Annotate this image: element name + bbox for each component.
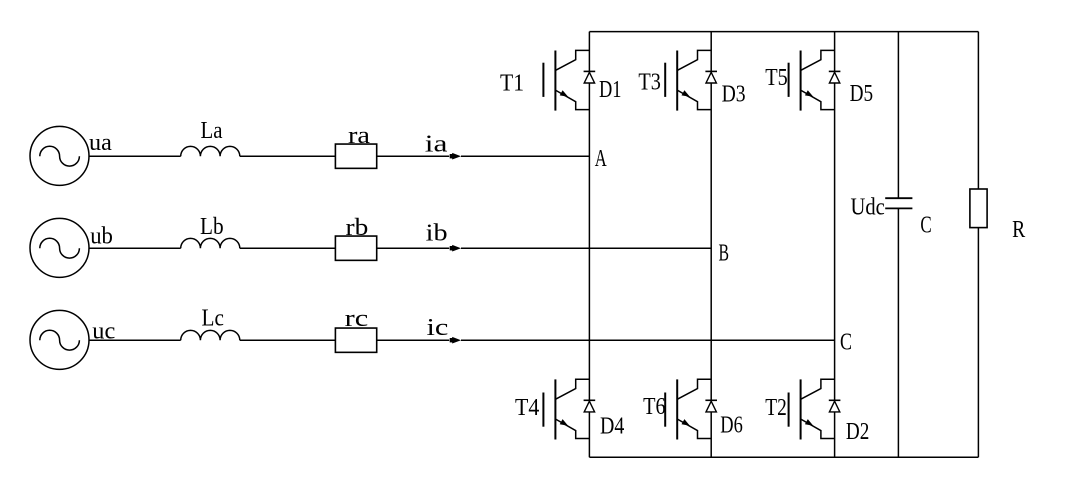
wire bridge leg 2 xyxy=(710,32,712,458)
wire xyxy=(377,339,450,341)
resistor rb xyxy=(335,236,376,260)
wire xyxy=(377,155,450,157)
diode D3 xyxy=(705,71,717,83)
transistor T3 (IGBT) xyxy=(665,50,711,110)
svg-text:Lb: Lb xyxy=(200,213,224,240)
wire bridge leg 1 xyxy=(588,32,590,458)
svg-text:ra: ra xyxy=(348,122,370,149)
svg-text:ic: ic xyxy=(427,314,449,341)
wire capacitor branch bottom xyxy=(897,208,899,457)
transistor T5 (IGBT) xyxy=(789,50,835,110)
svg-text:R: R xyxy=(1012,216,1026,243)
transistor T1 (IGBT) xyxy=(543,50,589,110)
current arrow ib xyxy=(452,245,461,252)
wire load branch top xyxy=(977,32,979,189)
current arrow ia xyxy=(452,153,461,160)
capacitor C xyxy=(885,197,912,199)
wire bridge leg 3 xyxy=(834,32,836,458)
AC source ua xyxy=(30,126,89,185)
svg-text:T6: T6 xyxy=(643,393,666,420)
wire xyxy=(377,247,450,249)
svg-text:B: B xyxy=(719,239,730,266)
resistor rc xyxy=(335,328,376,352)
svg-text:T1: T1 xyxy=(500,70,524,97)
diode D4 xyxy=(584,400,596,412)
svg-text:T4: T4 xyxy=(515,394,539,421)
svg-text:D6: D6 xyxy=(720,412,743,439)
wire xyxy=(240,247,336,249)
inductor Lb xyxy=(181,238,240,248)
svg-text:A: A xyxy=(595,145,607,172)
svg-text:Udc: Udc xyxy=(851,194,885,221)
wire xyxy=(461,247,711,249)
wire top DC rail xyxy=(589,31,978,33)
svg-text:D5: D5 xyxy=(850,80,874,107)
current arrow ic xyxy=(452,337,461,344)
svg-text:T5: T5 xyxy=(765,64,788,91)
diode D2 xyxy=(829,400,841,412)
AC source ub xyxy=(30,218,89,277)
svg-text:rb: rb xyxy=(346,214,369,241)
svg-text:ua: ua xyxy=(89,129,112,156)
AC source uc xyxy=(30,310,89,369)
svg-text:D2: D2 xyxy=(846,418,869,445)
wire xyxy=(89,155,181,157)
svg-text:C: C xyxy=(920,212,931,239)
inductor La xyxy=(181,146,240,156)
diode D5 xyxy=(829,71,841,83)
wire capacitor branch top xyxy=(897,32,899,199)
diode D1 xyxy=(584,71,596,83)
transistor T6 (IGBT) xyxy=(665,379,711,439)
inductor Lc xyxy=(181,330,240,340)
diode D6 xyxy=(705,400,717,412)
wire xyxy=(89,339,181,341)
transistor T2 (IGBT) xyxy=(789,379,835,439)
resistor R xyxy=(970,189,987,228)
svg-text:La: La xyxy=(201,117,223,144)
svg-text:ia: ia xyxy=(425,131,448,158)
svg-text:Lc: Lc xyxy=(202,305,225,332)
wire xyxy=(461,155,589,157)
svg-text:D3: D3 xyxy=(722,81,746,108)
svg-text:T3: T3 xyxy=(638,69,661,96)
resistor ra xyxy=(335,144,376,168)
svg-text:rc: rc xyxy=(345,305,369,332)
wire xyxy=(461,339,835,341)
wire xyxy=(240,155,336,157)
wire xyxy=(89,247,181,249)
wire xyxy=(240,339,336,341)
svg-text:D1: D1 xyxy=(599,76,622,103)
wire load branch bottom xyxy=(977,228,979,458)
wire bottom DC rail xyxy=(589,456,978,458)
transistor T4 (IGBT) xyxy=(543,379,589,439)
svg-text:ib: ib xyxy=(426,220,448,247)
svg-text:ub: ub xyxy=(90,223,113,250)
svg-text:T2: T2 xyxy=(765,394,787,421)
svg-text:D4: D4 xyxy=(600,413,624,440)
svg-text:C: C xyxy=(840,329,852,356)
